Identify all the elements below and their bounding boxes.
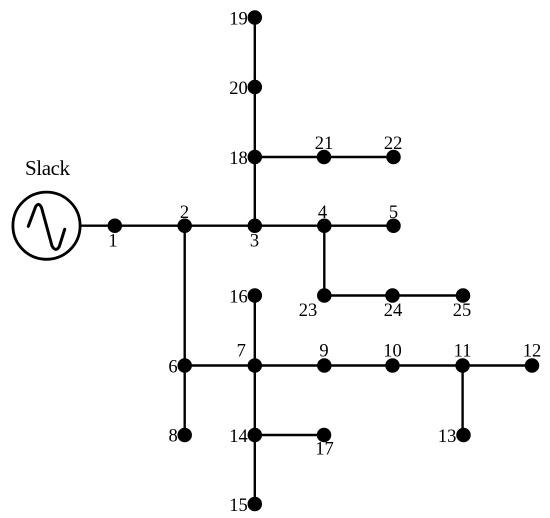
node 5 (386, 218, 401, 233)
node 9 (317, 358, 332, 373)
svg-text:23: 23 (299, 301, 318, 321)
wire 16-7 (254, 296, 256, 366)
svg-text:10: 10 (383, 342, 402, 362)
node 18 (248, 150, 262, 165)
svg-text:13: 13 (438, 427, 457, 447)
svg-text:16: 16 (229, 288, 248, 308)
svg-text:25: 25 (453, 301, 472, 321)
svg-text:1: 1 (108, 231, 117, 251)
svg-text:19: 19 (229, 10, 248, 30)
node 23 (317, 288, 332, 303)
svg-text:22: 22 (384, 134, 403, 154)
node 11 (455, 358, 470, 373)
wire 11-13 (461, 366, 463, 436)
node 10 (385, 358, 400, 373)
svg-text:3: 3 (250, 231, 259, 251)
svg-text:4: 4 (318, 203, 327, 223)
node 19 (248, 10, 262, 25)
svg-text:6: 6 (168, 358, 177, 378)
svg-text:11: 11 (454, 342, 472, 362)
svg-text:2: 2 (180, 203, 189, 223)
svg-text:15: 15 (229, 496, 248, 516)
node 13 (456, 428, 471, 443)
wire 1-2-3-4-5 (115, 224, 394, 226)
node 25 (456, 288, 471, 303)
svg-text:17: 17 (315, 440, 334, 460)
wire 14-17 (255, 434, 324, 436)
wire slack to node 1 (80, 224, 115, 226)
svg-text:5: 5 (389, 203, 398, 223)
node 1 (108, 218, 123, 233)
svg-text:9: 9 (319, 342, 328, 362)
node 24 (385, 288, 400, 303)
wire 3-18-20-19 (254, 18, 256, 226)
node 14 (248, 428, 262, 443)
svg-text:Slack: Slack (25, 156, 71, 180)
node 7 (248, 358, 262, 373)
svg-text:14: 14 (229, 427, 248, 447)
wire 4-23 (323, 226, 325, 296)
wire 7-14-15 (254, 366, 256, 505)
node 2 (177, 218, 192, 233)
node 3 (248, 218, 262, 233)
svg-text:24: 24 (384, 301, 403, 321)
svg-text:18: 18 (229, 149, 248, 169)
svg-text:8: 8 (169, 427, 178, 447)
node 4 (317, 218, 332, 233)
slack sine wave (28, 204, 64, 249)
node 17 (317, 428, 332, 443)
node 22 (386, 150, 401, 165)
svg-text:20: 20 (229, 79, 248, 99)
svg-text:21: 21 (315, 134, 334, 154)
svg-text:7: 7 (237, 342, 246, 362)
svg-text:12: 12 (523, 342, 542, 362)
wire 2-6 (183, 226, 185, 366)
node 21 (317, 150, 332, 165)
node 6 (177, 358, 192, 373)
node 8 (177, 428, 192, 443)
node 12 (525, 358, 540, 373)
node 20 (248, 80, 262, 95)
wire 6-8 (183, 366, 185, 436)
slack generator circle (13, 192, 80, 259)
wire 23-24-25 (324, 294, 463, 296)
node 15 (248, 497, 262, 512)
wire 6-7-9-10-11-12 (185, 364, 532, 366)
node 16 (248, 288, 262, 303)
wire 18-21-22 (255, 156, 394, 158)
